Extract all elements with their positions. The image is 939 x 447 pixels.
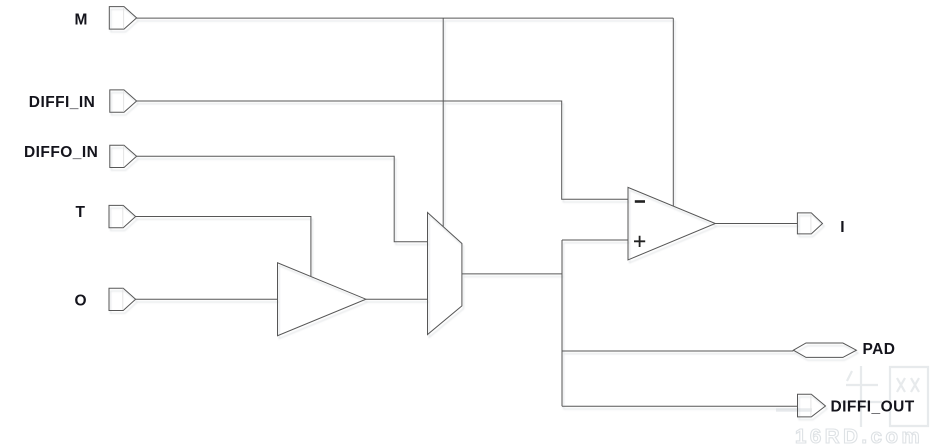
port M xyxy=(109,7,136,30)
wire mux select xyxy=(442,18,444,227)
port I xyxy=(797,213,822,234)
op-amp plus symbol xyxy=(634,236,645,247)
wire M horizontal xyxy=(137,17,674,19)
port PAD hexagon xyxy=(793,343,856,357)
svg-text:O: O xyxy=(75,292,88,309)
watermark CJK glyph 牛 xyxy=(841,366,882,427)
watermark CJK glyph 网 xyxy=(890,367,928,426)
op-amp U1 xyxy=(628,187,715,260)
port inner seams xyxy=(123,7,811,416)
wire DIFFI_OUT xyxy=(562,405,798,407)
svg-text:M: M xyxy=(75,12,88,29)
svg-text:DIFFO_IN: DIFFO_IN xyxy=(24,144,98,161)
svg-text:PAD: PAD xyxy=(863,341,896,358)
wire bus vertical xyxy=(561,240,563,406)
port DIFFO_IN xyxy=(110,145,137,167)
watermark CJK glyph 一 xyxy=(776,408,812,412)
wire op-amp output xyxy=(715,223,797,225)
wire DIFFI_IN to minus input xyxy=(137,101,628,199)
port T xyxy=(109,205,136,227)
svg-text:I: I xyxy=(840,219,845,236)
svg-text:DIFFI_IN: DIFFI_IN xyxy=(29,94,95,111)
wire O to buffer xyxy=(136,298,278,300)
wire PAD xyxy=(562,350,793,352)
port O xyxy=(109,288,136,310)
svg-text:T: T xyxy=(76,204,86,221)
wire T to buffer enable xyxy=(136,217,311,277)
op-amp minus symbol xyxy=(635,200,645,203)
wire DIFFO_IN to mux xyxy=(137,156,428,241)
svg-text:DIFFI_OUT: DIFFI_OUT xyxy=(831,398,915,415)
port DIFFI_OUT xyxy=(798,394,826,417)
buffer triangle xyxy=(278,263,366,336)
svg-text:16RD.com: 16RD.com xyxy=(795,425,923,447)
wire plus input xyxy=(562,239,628,241)
port DIFFI_IN xyxy=(110,90,137,112)
wire buffer to mux xyxy=(366,298,428,300)
wire mux output xyxy=(462,273,562,275)
mux trapezoid xyxy=(428,213,462,335)
wire M drop to op-amp xyxy=(672,18,674,206)
